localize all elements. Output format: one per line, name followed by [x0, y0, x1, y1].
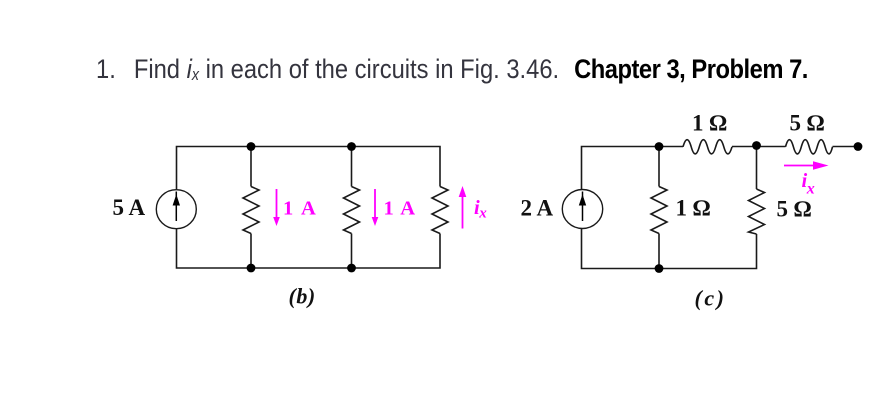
svg-text:(b): (b) [289, 284, 316, 309]
svg-text:(c): (c) [695, 286, 727, 311]
svg-text:ix: ix [474, 197, 487, 222]
svg-text:ix: ix [802, 170, 815, 198]
svg-text:1A: 1A [384, 198, 416, 220]
svg-text:1 Ω: 1 Ω [676, 196, 711, 221]
svg-text:5 A: 5 A [113, 195, 146, 220]
svg-text:1 Ω: 1 Ω [692, 111, 727, 136]
svg-text:5 Ω: 5 Ω [777, 197, 812, 222]
svg-text:1A: 1A [283, 198, 316, 220]
svg-text:2 A: 2 A [521, 196, 554, 221]
svg-text:5 Ω: 5 Ω [790, 111, 825, 136]
